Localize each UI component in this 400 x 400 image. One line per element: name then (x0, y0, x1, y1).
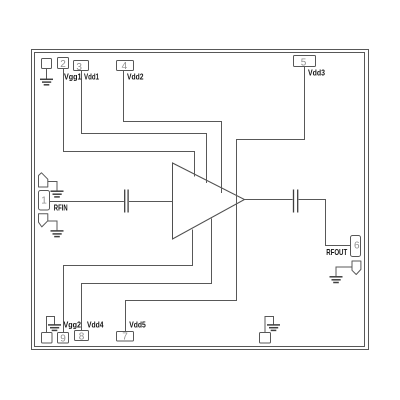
wire (265, 317, 274, 333)
wire cap to pin6 (299, 200, 351, 246)
wire (336, 267, 352, 276)
svg-text:Vgg1: Vgg1 (64, 72, 82, 81)
wire pin5 to amp (237, 67, 305, 205)
svg-text:RFIN: RFIN (54, 204, 68, 213)
pin 2 box (58, 58, 69, 69)
wire pin2 to amp (64, 68, 195, 177)
op-amp U1 (173, 163, 245, 239)
pin 4 box (117, 61, 134, 71)
pad square P-GND-TL (42, 59, 52, 69)
svg-text:Vgg2: Vgg2 (64, 320, 82, 329)
outer border (32, 50, 369, 350)
wire (48, 182, 57, 192)
pad RF-IN-TOP (39, 173, 48, 187)
pin 7 box (117, 332, 134, 342)
wire cap to amp (129, 201, 173, 203)
svg-text:9: 9 (60, 334, 66, 345)
wire (48, 221, 57, 231)
pin 6 box (351, 236, 361, 257)
wire pin8 to amp (82, 219, 212, 331)
svg-text:5: 5 (301, 57, 307, 68)
ground (40, 79, 53, 85)
ground (330, 277, 343, 283)
ground (48, 325, 61, 331)
svg-text:Vdd2: Vdd2 (127, 72, 144, 81)
wire (47, 317, 55, 333)
pad RF-IN-BOT (39, 214, 48, 227)
ground (51, 191, 64, 197)
svg-text:6: 6 (354, 240, 360, 251)
pin 8 box (75, 331, 89, 341)
svg-text:RFOUT: RFOUT (326, 248, 347, 257)
ground (51, 231, 64, 237)
pad RF-OUT (352, 261, 361, 275)
wire (46, 69, 48, 80)
svg-text:4: 4 (122, 61, 128, 72)
svg-text:1: 1 (41, 196, 47, 207)
capacitor C2 (294, 190, 298, 213)
capacitor C1 (125, 190, 128, 213)
svg-text:Vdd4: Vdd4 (87, 320, 104, 329)
svg-text:Vdd5: Vdd5 (129, 320, 146, 329)
wire pin4 to amp (124, 71, 222, 194)
wire amp output (245, 199, 293, 201)
pad square P-GND-BR (260, 333, 271, 344)
wire pin7 to amp (126, 204, 237, 332)
svg-text:Vdd1: Vdd1 (84, 72, 99, 81)
inner border (35, 53, 365, 347)
svg-text:8: 8 (79, 332, 85, 343)
wire RFIN line (50, 201, 124, 203)
pin 3 box (74, 61, 89, 71)
pin 5 box (294, 56, 316, 67)
wire pin9 to amp (64, 230, 193, 333)
svg-text:Vdd3: Vdd3 (308, 68, 325, 77)
pin 9 box (58, 333, 69, 344)
pin 1 box (39, 191, 50, 211)
pad square P-GND-BL (42, 333, 53, 344)
svg-text:2: 2 (60, 59, 66, 70)
svg-text:7: 7 (122, 331, 128, 342)
ground (267, 325, 280, 331)
wire pin3 to amp (82, 71, 207, 184)
